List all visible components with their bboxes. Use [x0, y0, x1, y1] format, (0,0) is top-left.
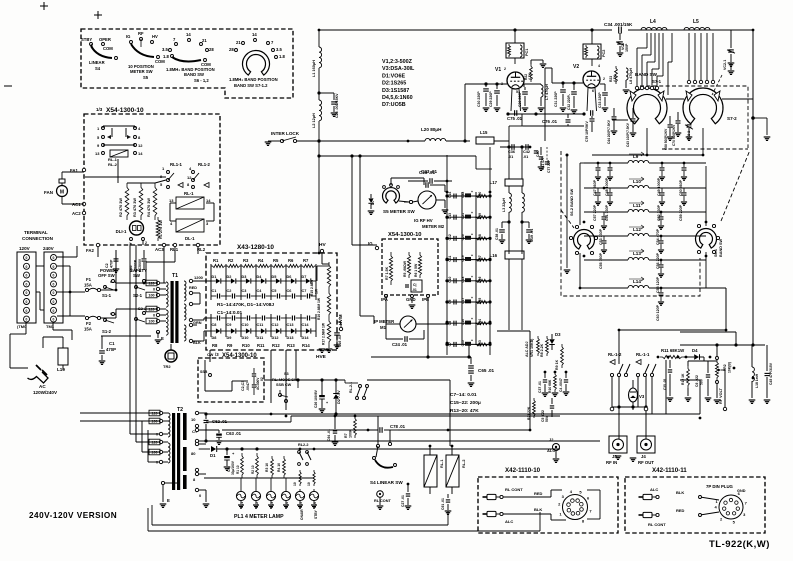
svg-text:R15: R15 — [478, 298, 482, 304]
wire S7-2 output to right edge — [751, 116, 770, 140]
svg-text:S4: S4 — [95, 66, 101, 71]
tube V2 3-500Z — [573, 64, 605, 93]
svg-text:02: 02 — [260, 377, 264, 381]
relay contacts RL1-2 — [198, 162, 211, 188]
svg-text:RL-1-2: RL-1-2 — [608, 352, 622, 357]
svg-text:GND: GND — [737, 489, 746, 493]
svg-text:BAND SW: BAND SW — [184, 72, 204, 77]
tank coil L14 — [584, 277, 706, 288]
svg-text:0: 0 — [26, 274, 28, 278]
svg-text:VC2-2: VC2-2 — [687, 131, 691, 140]
dashed enclosure S7 bottom — [662, 148, 748, 150]
node rails upper bank — [211, 264, 316, 300]
svg-text:R4: R4 — [258, 258, 264, 263]
svg-text:C68 500P/2KV: C68 500P/2KV — [664, 128, 668, 150]
svg-text:L11: L11 — [633, 203, 641, 208]
potentiometer VR2 10KB — [714, 345, 732, 403]
ground E (T1) — [155, 330, 164, 343]
switch S5 METER SW (wafer) — [383, 184, 416, 214]
svg-text:M: M — [60, 190, 64, 196]
svg-text:C10: C10 — [448, 276, 452, 282]
svg-text:0: 0 — [26, 282, 28, 286]
capacitor C39 .01 — [520, 220, 534, 243]
svg-text:R9: R9 — [227, 343, 233, 348]
plate choke L2 12uH — [312, 75, 322, 143]
choke L7 470uH — [524, 84, 549, 112]
svg-text:470P: 470P — [110, 259, 114, 268]
svg-text:X42-1110-10: X42-1110-10 — [505, 467, 541, 474]
resistor R21 22K — [527, 398, 535, 420]
svg-text:1/3: 1/3 — [96, 107, 103, 112]
padder capacitor C70 500P/2KV — [672, 112, 681, 146]
fuse F1 15A — [84, 277, 101, 292]
band switch S6-1 wafer — [696, 224, 724, 257]
svg-text:C75 .01: C75 .01 — [507, 116, 523, 121]
svg-text:4.7K: 4.7K — [528, 72, 532, 80]
trimmer ALC ADJ VR1 10KB — [525, 336, 539, 357]
svg-text:0: 0 — [26, 300, 28, 304]
delay lamp DLI-1 — [116, 221, 147, 246]
wire filament bus — [500, 147, 530, 179]
svg-text:.01: .01 — [508, 155, 513, 159]
note C7~14 C15~22 R13~20 — [450, 392, 481, 414]
capacitor C4 .0047 — [559, 372, 569, 395]
node IG — [368, 241, 379, 250]
dashed link VC2-1 to wafer — [712, 75, 722, 95]
svg-text:D14: D14 — [302, 336, 310, 340]
svg-text:C43 100P/7.5KV: C43 100P/7.5KV — [626, 122, 630, 147]
svg-text:R17 2.68M 1W: R17 2.68M 1W — [322, 322, 326, 345]
capacitor C63 .01 — [199, 430, 242, 444]
svg-text:C61 .01: C61 .01 — [441, 498, 445, 510]
svg-text:L12: L12 — [633, 227, 641, 232]
wire left risers — [57, 246, 85, 316]
svg-text:C14: C14 — [448, 192, 452, 198]
wire T2 primary feeds — [130, 421, 159, 462]
svg-text:VC2-1: VC2-1 — [723, 60, 727, 70]
node rails lower bank — [211, 314, 316, 337]
svg-text:14: 14 — [186, 32, 191, 37]
wire X54 internal links — [85, 159, 214, 245]
node RL1 — [170, 243, 179, 252]
svg-text:C20: C20 — [461, 234, 465, 240]
resistor R5 .68W — [403, 252, 411, 278]
svg-text:V1,2:3-500Z: V1,2:3-500Z — [382, 59, 413, 65]
relay contacts RL1-1 — [160, 162, 199, 189]
svg-text:C59 220P: C59 220P — [679, 204, 683, 221]
coax jack J3 RF IN — [606, 436, 627, 465]
transformer T1 — [166, 273, 186, 343]
relay coil RL-2 — [446, 446, 466, 494]
fuse F2 15A — [84, 316, 101, 331]
svg-text:D7:UO5B: D7:UO5B — [382, 102, 406, 108]
svg-text:C6: C6 — [287, 289, 292, 293]
capacitor C33 220P — [598, 84, 608, 111]
svg-text:C51 330P: C51 330P — [605, 204, 609, 221]
svg-text:C12: C12 — [272, 323, 279, 327]
DIN plug socket — [699, 489, 748, 525]
line filter choke L19 — [43, 337, 68, 372]
svg-text:C40: C40 — [536, 151, 540, 157]
svg-text:R7: R7 — [303, 258, 309, 263]
nodes IPA GND IPB — [381, 295, 430, 309]
svg-text:R2 470 3W: R2 470 3W — [119, 198, 123, 217]
tube V1 3-500Z — [495, 67, 524, 94]
svg-text:C18: C18 — [461, 276, 465, 282]
svg-text:80: 80 — [191, 451, 196, 456]
resistor R8 2.2K — [540, 336, 548, 357]
capacitors C2,C3 .0047 (bias) — [241, 368, 264, 395]
svg-text:RL-1-1: RL-1-1 — [636, 352, 650, 357]
svg-text:R1: R1 — [213, 258, 219, 263]
svg-text:4.7K: 4.7K — [613, 74, 617, 82]
svg-text:C1~14:0.01: C1~14:0.01 — [217, 310, 243, 316]
svg-text:L20 80μH: L20 80μH — [421, 127, 442, 132]
svg-text:0: 0 — [153, 314, 155, 318]
wire bottom bus 2 — [80, 416, 560, 422]
switch S6-1,2 BAND SW — [162, 32, 215, 83]
svg-text:C77 22P: C77 22P — [547, 159, 551, 173]
capacitor C51 330P — [605, 188, 613, 221]
svg-text:L13: L13 — [633, 251, 641, 256]
svg-text:C25 .002/15KV: C25 .002/15KV — [335, 93, 339, 118]
svg-text:PL5: PL5 — [299, 502, 303, 508]
capacitor C60 120P — [656, 288, 664, 321]
resistor R23 4.7K — [609, 66, 617, 84]
wires relay to jacks — [610, 360, 666, 439]
ladder row C13 / C21 / R19 — [445, 211, 491, 220]
wire IPB down — [427, 298, 429, 357]
svg-text:FAN: FAN — [44, 190, 53, 195]
svg-text:R8: R8 — [212, 343, 218, 348]
svg-text:0: 0 — [53, 318, 55, 322]
svg-text:AC3: AC3 — [155, 247, 164, 252]
svg-text:D4: D4 — [692, 348, 698, 353]
wire bias feed y156 — [319, 156, 492, 169]
svg-text:C7: C7 — [302, 289, 307, 293]
svg-text:D4,5,6:1N60: D4,5,6:1N60 — [382, 95, 413, 101]
svg-text:C13: C13 — [287, 323, 294, 327]
svg-text:L14: L14 — [633, 279, 641, 284]
wire bias internal — [205, 360, 248, 391]
svg-text:C1: C1 — [212, 289, 217, 293]
svg-text:150P: 150P — [625, 43, 629, 52]
ladder row C8 / C16 / R14 — [445, 317, 491, 326]
svg-text:C19: C19 — [461, 255, 465, 261]
filament choke L16 — [490, 251, 524, 330]
wire bottom long 2 — [148, 508, 540, 531]
resistor R11 68K1W — [660, 348, 685, 359]
svg-text:C13: C13 — [448, 213, 452, 219]
svg-text:D1: D1 — [210, 453, 216, 458]
svg-text:100: 100 — [148, 294, 154, 298]
phono plug ALC (X42-1110-10) — [483, 507, 543, 524]
wire tank outer ground rail — [564, 154, 571, 274]
registration mark top 2 — [94, 11, 102, 19]
capacitor C38 .01 — [495, 220, 511, 243]
svg-text:100: 100 — [151, 451, 157, 455]
svg-text:L10: L10 — [633, 179, 641, 184]
wire V2 grid bus — [484, 68, 583, 141]
dashed enclosure band switch S7 — [640, 86, 748, 148]
svg-text:PC2: PC2 — [602, 50, 606, 57]
svg-text:R5: R5 — [273, 258, 279, 263]
capacitor C23 .01 — [408, 169, 452, 184]
svg-text:C39 .01: C39 .01 — [530, 229, 534, 242]
svg-text:C16 .01: C16 .01 — [338, 335, 342, 347]
node AC3 — [155, 243, 166, 252]
resistors R1-R7 row — [211, 258, 316, 268]
tank coil L12 — [584, 225, 706, 236]
svg-text:100: 100 — [151, 420, 157, 424]
svg-text:12: 12 — [138, 143, 143, 148]
svg-text:C17: C17 — [461, 298, 465, 304]
relay contact RL2-2 — [298, 443, 311, 465]
svg-text:GRN: GRN — [193, 321, 202, 325]
svg-text:C|: C| — [413, 283, 416, 287]
V2 filament leads — [582, 88, 596, 116]
capacitor C62 .01 — [199, 412, 228, 442]
svg-text:IG: IG — [126, 34, 130, 39]
svg-text:VR1 10KB): VR1 10KB) — [530, 338, 534, 357]
svg-text:+: + — [471, 190, 473, 194]
svg-text:BAND SW S7-1.2: BAND SW S7-1.2 — [234, 83, 268, 88]
svg-text:RL-1: RL-1 — [184, 191, 194, 196]
meter M1 IP METER — [374, 296, 447, 332]
resistor R3 10 — [265, 456, 273, 478]
capacitors C1-C7 row — [211, 289, 316, 299]
svg-text:C7: C7 — [448, 342, 452, 346]
svg-text:V1: V1 — [495, 67, 501, 73]
svg-text:R1 10: R1 10 — [236, 465, 240, 474]
svg-text:S2-1: S2-1 — [133, 293, 143, 298]
module X42-1110-10 dashed box — [478, 477, 618, 533]
phono plug RL CONT (X42-1110-11) — [639, 508, 685, 527]
capacitor C55 150P — [599, 236, 607, 269]
ladder row C7 / C15 / R13 — [445, 338, 491, 347]
svg-text:C4 .0047: C4 .0047 — [559, 378, 563, 392]
svg-text:STBY: STBY — [314, 509, 318, 519]
wire lamp feed — [204, 478, 314, 489]
capacitor C48 1000P — [605, 163, 613, 196]
label AC 120W/240V — [33, 384, 58, 395]
svg-text:R7 1.5K: R7 1.5K — [385, 266, 389, 280]
resistor R6 10 — [307, 470, 315, 486]
capacitor C44 200P/7.5KV — [607, 108, 617, 144]
svg-text:HV: HV — [152, 34, 158, 39]
svg-text:OFF SW: OFF SW — [98, 273, 116, 278]
capacitor C1 470P — [99, 341, 116, 364]
svg-text:C41 47P: C41 47P — [541, 156, 545, 170]
node HVE — [316, 345, 332, 360]
svg-text:C36: C36 — [508, 150, 515, 154]
svg-text:L15: L15 — [480, 130, 488, 135]
svg-text:X54-1300-10: X54-1300-10 — [388, 232, 422, 238]
svg-text:2: 2 — [504, 67, 506, 71]
capacitor C65 .01 — [371, 345, 495, 386]
svg-text:D2: D2 — [227, 275, 232, 279]
svg-text:C5: C5 — [272, 289, 277, 293]
svg-text:R10 68K: R10 68K — [548, 379, 552, 393]
svg-text:PL4: PL4 — [285, 502, 289, 508]
svg-text:T2: T2 — [177, 407, 183, 413]
capacitor C34 .001/15K — [604, 22, 633, 34]
module X43-1280-10 dashed box — [206, 253, 337, 350]
svg-text:RF VOLT: RF VOLT — [719, 387, 723, 404]
label TERMINAL CONNECTION — [22, 230, 54, 241]
svg-text:R3: R3 — [243, 258, 249, 263]
capacitor C42 .01 — [523, 144, 530, 159]
svg-text:C23 .01: C23 .01 — [421, 169, 438, 174]
svg-text:RF OUT: RF OUT — [638, 460, 654, 465]
svg-text:SSB: SSB — [200, 370, 208, 374]
svg-text:PL1: PL1 — [240, 502, 244, 508]
svg-text:R16: R16 — [478, 276, 482, 282]
svg-text:E: E — [161, 336, 164, 341]
svg-text:F1: F1 — [86, 277, 92, 282]
capacitor C36 .01 — [508, 144, 515, 159]
svg-text:C30 220P: C30 220P — [477, 91, 481, 107]
rectifier diode D1 (12V) — [199, 446, 240, 458]
ground T2 bottom — [199, 474, 210, 507]
vacuum variable VC1 150P — [616, 33, 629, 56]
svg-text:R5 .68ΩW: R5 .68ΩW — [403, 260, 407, 277]
capacitor C23 .01 wiring — [391, 170, 445, 192]
capacitor C58 120P — [656, 260, 664, 293]
svg-text:C15: C15 — [461, 340, 465, 346]
svg-text:C70 500P/2KV: C70 500P/2KV — [672, 124, 676, 146]
switch S7-1,2 1.8MHz BAND POSITION (rotary) — [229, 32, 285, 88]
capacitor C16 .01 — [334, 327, 342, 348]
svg-text:/3: /3 — [215, 352, 219, 357]
svg-text:ALC: ALC — [505, 519, 513, 524]
svg-text:C15~22: 200μ: C15~22: 200μ — [450, 400, 481, 406]
capacitor C24 .01 — [386, 324, 424, 347]
wire tank to antenna relay — [619, 288, 726, 364]
wire bottom bus 3 — [222, 429, 530, 431]
svg-text:D11: D11 — [257, 336, 264, 340]
wire tank output lines — [680, 332, 765, 347]
choke L3 22uH — [502, 193, 524, 254]
wire grid drive bus — [319, 140, 509, 142]
svg-text:0: 0 — [53, 309, 55, 313]
svg-text:0: 0 — [26, 291, 28, 295]
svg-text:BLK: BLK — [676, 490, 684, 495]
diode D7 — [368, 194, 375, 214]
svg-text:C65 .01: C65 .01 — [478, 368, 495, 373]
svg-text:10: 10 — [191, 417, 196, 422]
svg-text:D6: D6 — [287, 275, 292, 279]
diode D4 — [684, 348, 717, 361]
svg-text:SSB CW: SSB CW — [276, 383, 292, 387]
svg-text:3.5: 3.5 — [276, 47, 282, 52]
svg-text:1.8MH₂ BAND POSITION: 1.8MH₂ BAND POSITION — [229, 77, 278, 82]
svg-text:R9 1K: R9 1K — [555, 359, 559, 370]
capacitor C79 10P/5KV — [585, 116, 595, 142]
node FA2 — [86, 243, 100, 253]
svg-text:R15 2.68M: R15 2.68M — [310, 280, 314, 296]
svg-text:L3 22μH: L3 22μH — [502, 198, 506, 212]
node HV — [319, 242, 329, 264]
svg-text:PL3: PL3 — [270, 502, 274, 508]
svg-text:HV/M: HV/M — [338, 314, 343, 325]
capacitor C53 330P — [599, 212, 607, 245]
svg-text:+: + — [471, 296, 473, 300]
svg-text:L8 470μH: L8 470μH — [629, 68, 633, 84]
relay RL-1/RL-2 pin grid — [95, 126, 143, 167]
wire ALC run — [497, 331, 530, 430]
capacitor C43 100P/7.5KV — [626, 108, 636, 147]
capacitor C47 560P — [593, 163, 601, 196]
svg-text:HV: HV — [319, 242, 326, 248]
svg-text:C79 10P/5KV: C79 10P/5KV — [585, 121, 589, 142]
svg-text:AC2: AC2 — [72, 211, 81, 216]
capacitor C35 .05 — [663, 360, 673, 401]
svg-text:D1: D1 — [212, 275, 217, 279]
wire HV plate bus — [319, 29, 753, 31]
svg-text:0: 0 — [26, 309, 28, 313]
wire L14 output — [706, 288, 726, 310]
capacitor C6 .022 50V — [695, 361, 711, 401]
svg-text:R2 10: R2 10 — [251, 465, 255, 474]
svg-text:C9: C9 — [227, 323, 232, 327]
svg-text:R3 470 3W: R3 470 3W — [133, 198, 137, 217]
capacitor C31 220P — [554, 84, 566, 111]
resistor R6 1 5W — [414, 252, 422, 278]
V1 filament leads + C75 .01 — [506, 89, 537, 121]
svg-text:D3: D3 — [242, 275, 247, 279]
ladder row C14 / C22 / R20 — [445, 190, 491, 199]
ground E (T2 chassis) — [160, 481, 180, 507]
svg-text:C22: C22 — [461, 192, 465, 198]
grid RC ladder rails — [447, 147, 490, 355]
jack J2 ALC — [547, 437, 560, 462]
svg-text:C63 .01: C63 .01 — [226, 431, 242, 436]
svg-text:.01: .01 — [523, 155, 528, 159]
choke L8 470uH — [623, 68, 633, 94]
wire TM0 to AC plug — [10, 323, 72, 368]
node AC2 — [72, 211, 86, 216]
svg-text:INTER LOCK: INTER LOCK — [271, 131, 300, 136]
resistor R22 4.7K — [524, 60, 546, 82]
svg-text:R1~14:470K, D1~14:V08J: R1~14:470K, D1~14:V08J — [217, 302, 274, 308]
module X54-1300-10 (meter shunt) dashed box — [382, 239, 438, 295]
svg-text:RL1-2: RL1-2 — [198, 162, 211, 167]
svg-text:AC: AC — [39, 384, 46, 389]
resistor R10 68K — [548, 372, 558, 396]
svg-text:C3: C3 — [242, 289, 247, 293]
svg-text:C27 .01: C27 .01 — [401, 495, 405, 507]
dashed tank diagonal to S7 enclosure — [721, 150, 750, 221]
svg-text:L7 470μH: L7 470μH — [545, 84, 549, 100]
svg-text:R6: R6 — [288, 258, 294, 263]
svg-text:13: 13 — [95, 151, 100, 156]
resistor R12 1K — [681, 361, 691, 401]
svg-text:C2,C3: C2,C3 — [241, 381, 245, 391]
svg-text:RED: RED — [676, 508, 685, 513]
wire output bus right — [752, 30, 754, 345]
svg-text:D3:1S1587: D3:1S1587 — [382, 88, 409, 94]
wire X43 bottom to mode box — [210, 350, 296, 410]
svg-text:IG RF HV: IG RF HV — [414, 218, 433, 223]
svg-text:R1 270 3W: R1 270 3W — [159, 220, 163, 239]
capacitor C64 .01 — [327, 416, 338, 445]
svg-text:C64 .01: C64 .01 — [327, 429, 331, 441]
svg-text:D2:1S265: D2:1S265 — [382, 81, 406, 87]
node RL2 — [196, 243, 205, 252]
ground VC2-1 — [728, 63, 735, 74]
svg-text:S1-2: S1-2 — [102, 329, 112, 334]
